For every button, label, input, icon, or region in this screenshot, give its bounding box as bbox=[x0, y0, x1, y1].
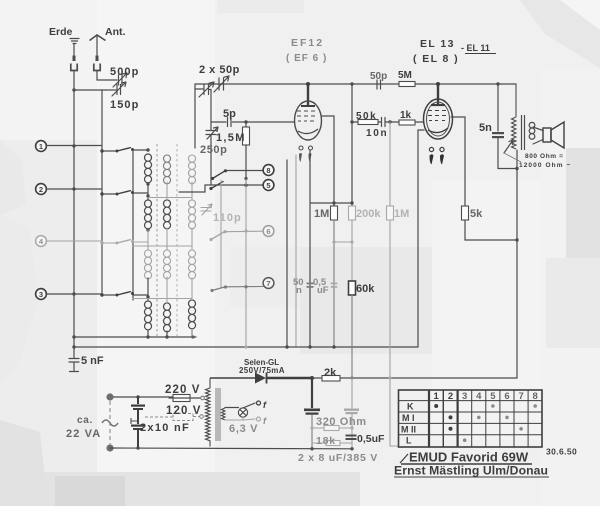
junction EL13 rail bbox=[436, 82, 440, 86]
resistor 50k bbox=[358, 120, 378, 125]
svg-text:5p: 5p bbox=[223, 108, 236, 120]
wire x352 from rail bbox=[351, 84, 353, 206]
wire S1 to coil L1a bbox=[133, 149, 148, 151]
wire L1c down bbox=[147, 278, 149, 300]
wire link row3 tops light bbox=[133, 245, 192, 247]
svg-text:5M: 5M bbox=[398, 70, 412, 81]
wire S2 to coil L1b bbox=[133, 192, 148, 194]
junction bus y189 bbox=[72, 187, 75, 190]
svg-text:n: n bbox=[296, 285, 302, 296]
junction L1b bottom bbox=[146, 228, 149, 231]
tube EL13 grids bbox=[428, 111, 446, 121]
watermark right band bbox=[540, 70, 600, 506]
svg-text:1: 1 bbox=[434, 391, 440, 402]
switch blade node5 bbox=[209, 181, 223, 190]
resistor 1k bbox=[399, 120, 415, 125]
tap terminal 120V bbox=[200, 415, 204, 419]
tap arrow on T2 bbox=[504, 140, 513, 153]
svg-text:2: 2 bbox=[448, 391, 453, 402]
plug connector Erde bbox=[71, 56, 77, 71]
watermark center gray slab bbox=[230, 247, 310, 307]
junction 2x10nF top bbox=[136, 395, 139, 398]
junction 10n-1k bbox=[388, 120, 391, 123]
junction L1b top bbox=[146, 194, 149, 197]
watermark top strip bbox=[218, 0, 304, 13]
table contact dots bbox=[434, 404, 537, 442]
svg-text:1k: 1k bbox=[400, 110, 412, 121]
electrolytic cap 8uF second bbox=[344, 378, 359, 449]
capacitor 2x10nF upper bbox=[131, 397, 145, 424]
svg-text:0,5uF: 0,5uF bbox=[357, 433, 385, 445]
wire grid line y122 bbox=[211, 121, 294, 123]
junction rail2 left bbox=[72, 345, 75, 348]
svg-text:1: 1 bbox=[39, 142, 43, 151]
svg-text:7: 7 bbox=[518, 391, 523, 402]
wire step to node5 bbox=[179, 185, 263, 192]
junction link x352 bbox=[350, 240, 353, 243]
trimmer capacitor 500p bbox=[113, 73, 127, 87]
svg-text:2 x 50p: 2 x 50p bbox=[199, 64, 240, 76]
watermark left edge shape lower bbox=[0, 215, 38, 385]
junction 320 right bbox=[350, 426, 353, 429]
wire EF12 pin return light bbox=[295, 155, 297, 347]
capacitor 10n bbox=[382, 118, 386, 127]
coil L2a light bbox=[164, 155, 171, 184]
svg-text:uF: uF bbox=[317, 285, 329, 296]
switch S7 row bbox=[210, 285, 227, 292]
trimmer capacitor 150p bbox=[112, 82, 126, 96]
resistor 200k light bbox=[349, 206, 356, 220]
wire col192 segment a bbox=[191, 182, 193, 200]
junction coil L1a bottom bbox=[146, 182, 149, 185]
wire node2 bbox=[47, 188, 103, 190]
resistor 1M screen light bbox=[387, 206, 394, 220]
wire L2d to rail1 bbox=[166, 331, 168, 337]
wire x390 below B+ to table bbox=[390, 378, 398, 446]
svg-text:- EL 11: - EL 11 bbox=[461, 43, 490, 53]
tube EF12 filament marks bbox=[299, 153, 312, 162]
svg-text:60k: 60k bbox=[356, 283, 375, 295]
capacitor 5n bbox=[492, 132, 504, 138]
wire EF12 screen right bbox=[321, 116, 334, 206]
switch S3 row3 light bbox=[100, 240, 134, 245]
svg-text:K: K bbox=[407, 402, 414, 412]
svg-text:2k: 2k bbox=[324, 367, 337, 379]
wire Erde to 150p bbox=[74, 89, 116, 91]
svg-text:8: 8 bbox=[266, 166, 270, 175]
node 6 circle light bbox=[263, 226, 274, 237]
junction bracket x334 bbox=[332, 201, 335, 204]
svg-text:6: 6 bbox=[504, 391, 509, 402]
wire Erde bus vertical bbox=[73, 71, 75, 348]
watermark band left bbox=[0, 0, 97, 140]
node 7 circle bbox=[263, 278, 274, 289]
svg-text:M II: M II bbox=[401, 424, 416, 434]
switch table frame bbox=[399, 390, 543, 447]
resistor 60k bbox=[349, 281, 356, 378]
table header numbers bbox=[434, 391, 538, 402]
tube EL13 envelope outer bbox=[424, 99, 453, 139]
wire node3 bbox=[47, 293, 103, 295]
junction B+ x312 bbox=[310, 376, 314, 380]
wire L1a-L1b bbox=[147, 184, 149, 200]
watermark light rect right of slab bbox=[432, 180, 542, 440]
svg-text:220 V: 220 V bbox=[165, 384, 201, 396]
svg-text:7: 7 bbox=[266, 279, 270, 288]
tuning gang capacitor 2x50p upper bbox=[214, 76, 229, 92]
switch S6 light row bbox=[209, 230, 226, 241]
wire 5n branch bbox=[497, 84, 499, 131]
watermark top right gray corner bbox=[520, 0, 600, 68]
wire link row4 tops light bbox=[133, 298, 192, 300]
antenna symbol bbox=[90, 35, 106, 55]
watermark right letter bar bbox=[566, 148, 600, 258]
svg-text:18k: 18k bbox=[316, 435, 336, 447]
svg-text:( EL 8 ): ( EL 8 ) bbox=[413, 53, 459, 65]
wire L1d to rail1 bbox=[147, 330, 149, 337]
tube EL13 envelope inner bbox=[427, 102, 450, 136]
capacitor 0,5uF bbox=[346, 435, 357, 441]
watermark center gray slab right bbox=[300, 247, 432, 354]
resistor 2k bbox=[322, 376, 340, 382]
junction x517 y168 bbox=[515, 167, 518, 170]
svg-text:5: 5 bbox=[490, 391, 496, 402]
svg-text:50k: 50k bbox=[356, 111, 377, 122]
watermark band middle white bbox=[97, 0, 215, 506]
svg-text:EL 13: EL 13 bbox=[420, 38, 455, 50]
wire screen feed x390 light bbox=[389, 122, 391, 206]
svg-text:5n: 5n bbox=[479, 122, 492, 134]
coil L3a light bbox=[189, 155, 196, 184]
resistor 18k bbox=[312, 441, 352, 446]
wire EL13 cathode down x418 bbox=[418, 130, 424, 347]
transformer T2 secondary bbox=[529, 122, 535, 139]
tube EL13 anode bbox=[431, 104, 445, 106]
top rail y84 bbox=[195, 83, 516, 85]
svg-text:Ant.: Ant. bbox=[105, 26, 125, 38]
svg-text:EF12: EF12 bbox=[291, 37, 324, 49]
junction EF12 plate rail bbox=[306, 82, 310, 86]
label 50 n bbox=[293, 277, 304, 296]
svg-text:250p: 250p bbox=[200, 144, 227, 156]
svg-text:5 nF: 5 nF bbox=[81, 355, 104, 367]
wire 5k down to B+ riser bbox=[465, 220, 517, 240]
wire 50k line bbox=[352, 121, 424, 123]
junction bus y146 bbox=[72, 144, 75, 147]
svg-text:6: 6 bbox=[266, 227, 270, 236]
svg-text:M I: M I bbox=[402, 413, 415, 423]
wire column x221 light bbox=[220, 180, 222, 288]
node 3 circle bbox=[36, 289, 47, 300]
wire EL13 screen to 5k bbox=[451, 117, 465, 206]
junction B+ x390 bbox=[388, 376, 391, 379]
tube EL13 filament marks bbox=[430, 154, 445, 164]
wire rail down left x195 bbox=[195, 84, 203, 148]
svg-text:8: 8 bbox=[533, 391, 538, 402]
wire L2b down light bbox=[166, 228, 168, 250]
wire L3d to rail1 bbox=[191, 330, 193, 337]
switch S4 row4 bbox=[100, 292, 134, 297]
junction link x334 bbox=[332, 240, 335, 243]
node 5 circle bbox=[263, 180, 274, 191]
wire Erde down to plug bbox=[73, 44, 75, 55]
coil L2d bbox=[164, 303, 171, 332]
coil L1a bbox=[145, 154, 152, 183]
svg-text:( EF 6 ): ( EF 6 ) bbox=[286, 53, 327, 64]
bracket wire y203 bbox=[310, 202, 352, 204]
coil L1b bbox=[145, 200, 152, 229]
junction x246 y231 bbox=[244, 229, 247, 232]
wire node1 bbox=[47, 145, 103, 147]
ground symbol Erde terminal bbox=[70, 39, 79, 44]
label EL11 bbox=[461, 43, 496, 54]
svg-text:L: L bbox=[406, 436, 412, 446]
switch shaft dashed 1 bbox=[156, 144, 158, 336]
junction L1d top bbox=[146, 295, 149, 298]
svg-text:EMUD Favorid 69W: EMUD Favorid 69W bbox=[409, 450, 529, 465]
speaker bbox=[543, 122, 564, 148]
wire col167 segment a bbox=[166, 182, 168, 200]
electrolytic cap 8uF first bbox=[304, 378, 320, 449]
wire B+ riser x517 bbox=[516, 150, 518, 378]
junction bus y294 bbox=[72, 292, 75, 295]
node 4 circle bbox=[36, 236, 47, 247]
transformer T1 core bbox=[216, 388, 220, 441]
bottom rail bbox=[110, 447, 352, 450]
trimmer capacitor 250p bbox=[206, 122, 218, 185]
svg-text:12000 Ohm ~: 12000 Ohm ~ bbox=[519, 162, 571, 169]
svg-text:150p: 150p bbox=[110, 99, 139, 111]
mains terminal bottom bbox=[106, 444, 113, 451]
junction 2x10nF bottom bbox=[136, 446, 139, 449]
capacitor 50p bbox=[377, 80, 381, 89]
title EMUD Favorid 69W bbox=[400, 450, 532, 465]
svg-text:110p: 110p bbox=[213, 212, 242, 224]
junction node5 wire bbox=[244, 184, 247, 187]
transformer T2 core bbox=[522, 115, 525, 150]
tube EF12 pins bbox=[299, 146, 313, 150]
capacitor 5nF to ground bbox=[69, 347, 79, 372]
diode Selen bbox=[255, 373, 267, 384]
EF12 plate wire bbox=[307, 84, 309, 106]
watermark left edge shape upper bbox=[0, 140, 26, 215]
watermark bottom left shape bbox=[0, 420, 48, 506]
tap 120V dashed bbox=[145, 414, 200, 421]
svg-text:Ernst Mästling Ulm/Donau: Ernst Mästling Ulm/Donau bbox=[394, 464, 548, 478]
wire link row2 tops light bbox=[148, 197, 192, 199]
wire S3 to coil light bbox=[133, 241, 148, 243]
svg-text:5: 5 bbox=[266, 181, 270, 190]
wire gang lower to x211 bbox=[210, 90, 212, 123]
wire bracket down x309 bbox=[309, 150, 311, 347]
capacitor 0,5uF mid on x332 bbox=[331, 283, 338, 288]
svg-text:5k: 5k bbox=[470, 208, 483, 220]
wire lamp top to f bbox=[225, 403, 255, 408]
junction x352 y122 bbox=[350, 120, 353, 123]
svg-text:500p: 500p bbox=[110, 66, 139, 78]
coil L1d bbox=[145, 301, 152, 330]
junction rail x312 bbox=[310, 447, 313, 450]
switch S5 to node8 bbox=[211, 169, 227, 180]
junction x309 rail2 bbox=[308, 345, 311, 348]
mains tilde bbox=[102, 420, 118, 426]
tube EL13 pins bbox=[429, 147, 444, 151]
wire col192 segment c bbox=[191, 278, 193, 300]
coil L3b light bbox=[189, 200, 196, 229]
switch S2 row2 bbox=[100, 191, 134, 196]
wire x390 down to B+ bbox=[389, 220, 391, 378]
switch S1 row1 bbox=[100, 148, 134, 153]
svg-text:2: 2 bbox=[39, 185, 43, 194]
resistor 5k bbox=[462, 206, 469, 220]
trimmer 110p symbol bbox=[201, 204, 212, 215]
node 8 circle bbox=[263, 165, 274, 176]
winding 6,3V bbox=[222, 408, 226, 420]
junction coil L1a top bbox=[146, 148, 149, 151]
B+ line right bbox=[312, 377, 517, 379]
tap terminal 220V bbox=[201, 396, 205, 400]
coil L3d bbox=[189, 300, 196, 329]
wire to node6 light bbox=[225, 230, 263, 233]
svg-text:2x10 nF: 2x10 nF bbox=[140, 422, 190, 434]
svg-text:1,5M: 1,5M bbox=[216, 132, 246, 144]
watermark bottom dark blob bbox=[55, 476, 125, 506]
fuse 220V bbox=[169, 395, 194, 402]
wire lamp bottom bbox=[225, 417, 255, 420]
junction rail x352 bbox=[350, 447, 353, 450]
svg-text:320 Ohm: 320 Ohm bbox=[316, 416, 367, 428]
coil L2b bbox=[164, 200, 171, 229]
svg-text:250V/75mA: 250V/75mA bbox=[239, 366, 285, 375]
svg-text:50p: 50p bbox=[370, 71, 387, 82]
wire col192 segment b bbox=[191, 228, 193, 250]
tuning gang capacitor 2x50p lower bbox=[199, 82, 214, 97]
tube EF12 cathode bbox=[298, 129, 318, 134]
label 0,5 uF mid bbox=[313, 277, 329, 296]
rail2 horizontal bbox=[74, 346, 418, 348]
EL13 plate wire bbox=[437, 84, 439, 104]
svg-text:120 V: 120 V bbox=[166, 405, 202, 417]
wire column x102 down bbox=[101, 90, 103, 295]
transformer T2 primary bbox=[512, 84, 517, 149]
rail1 horizontal bbox=[73, 336, 196, 338]
junction x517 y240 bbox=[515, 238, 518, 241]
wire x352 down light bbox=[351, 220, 353, 281]
svg-text:1M: 1M bbox=[314, 208, 329, 220]
wire x246 dark segment bbox=[244, 177, 247, 186]
svg-text:2 x 8 uF/385 V: 2 x 8 uF/385 V bbox=[298, 452, 378, 464]
coil L2c light bbox=[164, 250, 171, 279]
wire column x246 light bbox=[245, 178, 247, 347]
junction 5p resistor bbox=[244, 120, 247, 123]
junction L2 rail bbox=[165, 335, 168, 338]
wire to node8 bbox=[226, 170, 263, 172]
resistor 320 Ohm bbox=[312, 426, 352, 431]
capacitor 2x10nF lower bbox=[131, 425, 145, 449]
junction x334 rail2 bbox=[332, 345, 335, 348]
svg-text:30.6.50: 30.6.50 bbox=[546, 447, 577, 457]
resistor 5M bbox=[399, 82, 415, 87]
wire column x133 down bbox=[132, 149, 134, 300]
junction x246 rail2 bbox=[244, 345, 247, 348]
svg-text:3: 3 bbox=[39, 290, 43, 299]
junction bracket x352 bbox=[350, 201, 353, 204]
leader line to impedance labels bbox=[504, 153, 521, 162]
svg-text:6,3 V: 6,3 V bbox=[229, 423, 258, 435]
svg-text:ca.: ca. bbox=[77, 415, 93, 426]
coil L3c light bbox=[189, 250, 196, 279]
wire Ant down bbox=[97, 71, 117, 81]
wire S4 to coil L1d bbox=[133, 294, 148, 296]
watermark top right white slash bbox=[560, 0, 600, 30]
wire fuse to transformer bbox=[194, 397, 201, 399]
svg-text:1M: 1M bbox=[394, 208, 409, 220]
tube EF12 envelope bbox=[295, 101, 322, 140]
watermark right mid slab bbox=[546, 258, 600, 348]
terminal f bottom bbox=[257, 416, 268, 426]
node 1 circle bbox=[36, 141, 47, 152]
wire grid return x289 bbox=[286, 160, 288, 347]
wire col167 segment b bbox=[166, 277, 168, 303]
svg-text:4: 4 bbox=[476, 391, 482, 402]
junction x246 y283 bbox=[244, 285, 247, 288]
svg-text:200k: 200k bbox=[356, 208, 381, 220]
mains terminal top bbox=[106, 393, 113, 400]
junction B+ x352 bbox=[350, 376, 353, 379]
wire 5n down to corner bbox=[498, 138, 517, 169]
junction rail1 left bbox=[72, 335, 75, 338]
junction 320 left bbox=[310, 426, 313, 429]
wire to node7 bbox=[226, 286, 264, 288]
speaker wires bbox=[533, 127, 543, 144]
watermark bottom band bbox=[0, 472, 360, 506]
mains dashed link bbox=[109, 401, 111, 444]
svg-text:800 Ohm =: 800 Ohm = bbox=[525, 153, 563, 160]
dial lamp bbox=[238, 408, 247, 417]
svg-text:Erde: Erde bbox=[49, 26, 73, 38]
node 2 circle bbox=[36, 184, 47, 195]
junction rail1 L1 bbox=[146, 335, 149, 338]
junction 5n rail bbox=[496, 82, 499, 85]
resistor 1M vertical bbox=[331, 206, 338, 347]
junction L3 rail bbox=[191, 335, 194, 338]
coil L1c light bbox=[145, 250, 152, 279]
title Ernst Maestling bbox=[394, 464, 549, 478]
tube EF12 anode bbox=[301, 105, 315, 107]
tube EL13 cathode bbox=[428, 128, 448, 133]
svg-text:22 VA: 22 VA bbox=[66, 428, 101, 440]
switch shaft dashed 2 bbox=[176, 144, 178, 336]
wire link y242 light bbox=[334, 241, 352, 243]
capacitor 50n on x309 bbox=[307, 283, 314, 288]
junction x289 rail2 bbox=[285, 345, 288, 348]
junction x352 y84 bbox=[350, 82, 353, 85]
wire node4 bbox=[47, 240, 103, 242]
resistor 1,5M vertical bbox=[243, 122, 250, 178]
svg-text:3: 3 bbox=[462, 391, 467, 402]
B+ line thick left bbox=[210, 377, 312, 379]
svg-text:10n: 10n bbox=[366, 128, 388, 139]
junction Erde-150p bbox=[72, 88, 75, 91]
table row labels bbox=[401, 402, 416, 446]
wire mains top bbox=[114, 396, 174, 398]
plug connector Ant bbox=[94, 56, 100, 71]
wire L1b down light bbox=[147, 230, 149, 250]
capacitor 5p bbox=[228, 118, 232, 127]
transformer T1 primary zigzag bbox=[206, 378, 211, 447]
tube EF12 grids bbox=[297, 111, 315, 121]
terminal f top bbox=[257, 400, 268, 410]
